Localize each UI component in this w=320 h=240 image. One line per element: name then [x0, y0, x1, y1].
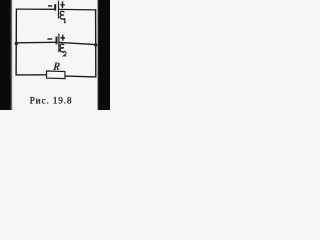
paper background — [0, 0, 110, 110]
battery E2 minus sign — [47, 38, 52, 40]
resistor R body — [47, 71, 66, 79]
wire bottom-left segment — [16, 74, 46, 76]
label EMF1 subscript 1 — [64, 19, 66, 22]
label EMF1 script-E — [60, 11, 65, 19]
battery E1 plus sign — [60, 2, 65, 8]
wire top-left segment — [16, 8, 54, 10]
battery E1 minus sign — [48, 5, 52, 7]
battery E2 negative plate — [56, 37, 58, 45]
battery E1 negative plate — [54, 4, 56, 10]
wire middle-right segment — [59, 42, 95, 44]
wire top-right segment — [59, 8, 96, 11]
left scan border — [0, 0, 11, 110]
wire left vertical — [15, 9, 17, 76]
junction node right — [94, 43, 97, 46]
wire right vertical — [95, 9, 97, 77]
battery E1 positive plate — [58, 1, 60, 19]
right scan border — [98, 0, 110, 110]
wire middle-left segment — [16, 41, 55, 44]
svg-text:Рис. 19.8: Рис. 19.8 — [30, 97, 72, 107]
svg-text:R: R — [52, 60, 61, 73]
battery E2 positive plate — [58, 34, 60, 53]
battery E2 plus sign — [60, 35, 65, 41]
label EMF2 script-E — [60, 44, 65, 52]
wire bottom-right segment — [65, 75, 96, 78]
label EMF2 subscript 2 — [63, 52, 66, 56]
junction node left — [15, 42, 18, 45]
